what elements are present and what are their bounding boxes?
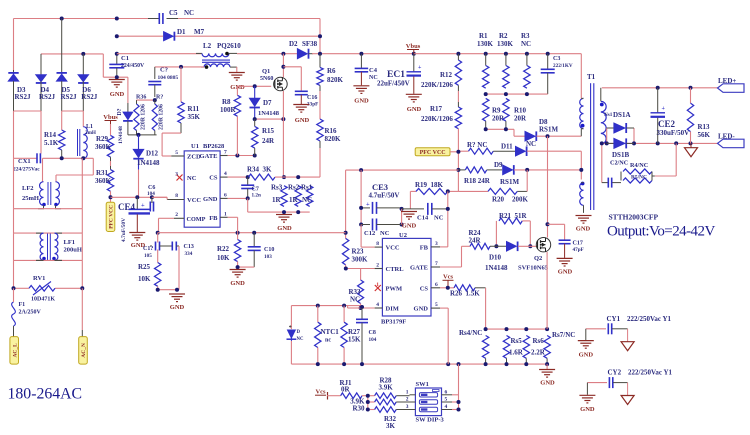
node dot R2 top xyxy=(504,52,508,56)
wire bridge AC pair rail xyxy=(41,54,103,77)
svg-text:Ns1: Ns1 xyxy=(604,112,613,118)
svg-text:Rs7/NC: Rs7/NC xyxy=(552,331,575,339)
wire flag to vert xyxy=(450,151,458,153)
svg-text:4.7uF/50V: 4.7uF/50V xyxy=(121,218,127,242)
resistor R7 NC xyxy=(458,141,493,154)
node dot rail Rs7 xyxy=(545,362,549,366)
node dot R14 bottom xyxy=(60,156,64,160)
wire SW common xyxy=(452,364,459,409)
U1 pin GND xyxy=(203,193,228,204)
svg-text:D12: D12 xyxy=(146,150,159,158)
earth CY2 xyxy=(621,396,634,405)
U1 pin ZCD xyxy=(171,150,201,161)
wire D9 out xyxy=(514,169,581,171)
svg-text:222/250Vac Y1: 222/250Vac Y1 xyxy=(627,315,672,323)
svg-text:+: + xyxy=(366,201,370,208)
svg-text:4: 4 xyxy=(445,404,448,410)
wire D8 to T1 xyxy=(537,135,582,137)
wire R6-R16 xyxy=(319,85,321,119)
T1 aux winding xyxy=(580,182,585,213)
diode D3 xyxy=(8,70,31,111)
diode D6 xyxy=(78,54,98,111)
wire gnd rail under C1 xyxy=(103,76,128,78)
node dot D8 out xyxy=(546,134,550,138)
wire Q1 drain xyxy=(282,54,284,77)
wire Q1 source xyxy=(282,91,284,177)
svg-text:+: + xyxy=(418,65,422,71)
wire D12 to VCC rail xyxy=(137,170,138,198)
wire main bus C1 to L2 xyxy=(117,53,201,55)
svg-text:R?: R? xyxy=(156,95,163,101)
capacitor C7 xyxy=(241,177,261,198)
capacitor C6 xyxy=(147,185,155,212)
resistor R3 xyxy=(521,32,531,88)
svg-text:GND: GND xyxy=(295,117,310,124)
diode D9 xyxy=(494,161,519,186)
wire LF1 top row xyxy=(14,232,83,234)
svg-text:360K: 360K xyxy=(95,177,112,185)
svg-text:104: 104 xyxy=(369,337,377,343)
node dot R1 top xyxy=(484,52,488,56)
svg-text:D1: D1 xyxy=(177,28,186,36)
svg-text:D11: D11 xyxy=(501,143,513,151)
resistor R13 xyxy=(687,88,710,144)
svg-text:M7: M7 xyxy=(194,28,205,36)
wire Rs top rail xyxy=(486,328,547,330)
resistor Rs6 xyxy=(523,336,546,359)
diode D10 xyxy=(485,242,518,273)
node dot rail U2gnd xyxy=(446,362,450,366)
resistor Rs2 xyxy=(288,184,301,207)
wire R31 bottom xyxy=(110,191,112,202)
resistor R24 xyxy=(469,229,491,249)
diode D1 xyxy=(164,28,205,41)
wire sec top xyxy=(600,88,602,102)
wire zener col xyxy=(290,306,292,330)
svg-text:CY2: CY2 xyxy=(608,369,622,377)
wire C16 top xyxy=(283,67,301,92)
U2 pin CTRL xyxy=(375,263,405,274)
svg-text:47pF: 47pF xyxy=(573,247,584,253)
wire Q2 drain xyxy=(547,136,549,237)
wire R123 bottom rail xyxy=(486,93,548,95)
svg-text:GND: GND xyxy=(558,269,573,276)
svg-text:PFC VCC: PFC VCC xyxy=(109,205,115,229)
svg-text:F1: F1 xyxy=(19,302,26,308)
svg-text:PFC VCC: PFC VCC xyxy=(420,150,446,156)
svg-text:NC: NC xyxy=(526,140,536,148)
wire to Dq column xyxy=(127,77,129,103)
node dot R3 bottom xyxy=(525,92,529,96)
T1 primary winding xyxy=(580,98,585,136)
svg-text:R14: R14 xyxy=(44,131,57,139)
resistor R22 xyxy=(217,233,241,262)
U1 pin GATE xyxy=(200,150,228,161)
svg-text:330uF/50V: 330uF/50V xyxy=(657,129,690,137)
node dot rail Rs6 xyxy=(524,362,528,366)
svg-text:RS1M: RS1M xyxy=(539,126,558,134)
svg-text:COMP: COMP xyxy=(187,216,206,223)
resistor R16 xyxy=(317,119,341,177)
svg-text:1: 1 xyxy=(376,282,379,288)
svg-text:1.6R: 1.6R xyxy=(509,349,524,357)
svg-text:10D471K: 10D471K xyxy=(31,297,55,303)
fuse F1 xyxy=(12,288,42,336)
wire aux top xyxy=(580,151,582,179)
node dot R13 bottom xyxy=(689,141,693,145)
node dot source tap xyxy=(281,117,285,121)
node dot R8 bottom xyxy=(235,154,256,158)
svg-text:Output:Vo=24-42V: Output:Vo=24-42V xyxy=(607,224,715,240)
svg-text:300K: 300K xyxy=(352,256,369,264)
node dot Rs2 top xyxy=(296,175,300,179)
wire R24 D10 xyxy=(490,245,507,247)
transformer L2 core xyxy=(202,60,230,62)
node dot ladder2 xyxy=(366,400,370,404)
node dot rail Rs5 xyxy=(505,362,509,366)
wire R36 top rail xyxy=(137,99,155,101)
transformer T1 core xyxy=(587,73,596,210)
node dot ladder3 xyxy=(366,408,370,412)
wire CX1 row xyxy=(14,157,94,159)
svg-text:10K: 10K xyxy=(138,275,151,283)
node dot D1 row left xyxy=(115,34,119,38)
wire CTRL row xyxy=(346,265,375,269)
resistor R1 xyxy=(477,32,494,88)
capacitor CX1 xyxy=(13,153,40,172)
resistor R26 xyxy=(450,285,486,298)
wire L2 sec to C2 xyxy=(155,66,204,68)
svg-text:C8: C8 xyxy=(369,330,376,336)
svg-text:DS1A: DS1A xyxy=(613,111,631,119)
ground T1 aux xyxy=(576,216,592,233)
U1 pin NC xyxy=(175,172,196,183)
svg-text:C2/NC: C2/NC xyxy=(610,160,628,167)
svg-text:R2: R2 xyxy=(499,32,508,40)
node dot sec bottom xyxy=(600,141,604,145)
svg-text:R23: R23 xyxy=(352,248,365,256)
svg-text:GND: GND xyxy=(540,380,555,387)
svg-text:CE4: CE4 xyxy=(118,202,136,212)
wire CE3 col xyxy=(360,170,362,224)
node dot snubber top xyxy=(674,141,678,145)
svg-text:R15: R15 xyxy=(262,127,275,135)
node dot C13 bottom xyxy=(175,288,179,292)
port LED- xyxy=(718,133,745,148)
svg-text:D7: D7 xyxy=(263,99,272,107)
node dot R12 top xyxy=(456,52,460,56)
svg-text:NC: NC xyxy=(521,40,531,48)
U1 pin CS xyxy=(209,171,228,182)
capacitor CY1 xyxy=(586,315,672,342)
svg-text:200K: 200K xyxy=(512,196,529,204)
wire FB row xyxy=(440,246,448,248)
node dot rail R27 xyxy=(342,362,346,366)
svg-text:Vbus: Vbus xyxy=(406,43,421,50)
svg-text:1: 1 xyxy=(406,390,409,396)
svg-text:2: 2 xyxy=(406,397,409,403)
svg-text:C5: C5 xyxy=(169,9,178,17)
resistor R9 xyxy=(483,98,506,122)
svg-text:C1: C1 xyxy=(121,55,129,62)
wire right col down xyxy=(81,209,83,233)
svg-text:220R 1206: 220R 1206 xyxy=(159,104,165,130)
switch SW1 xyxy=(406,381,452,424)
svg-text:SW1: SW1 xyxy=(416,381,429,388)
svg-text:25mH: 25mH xyxy=(22,195,39,202)
svg-text:105: 105 xyxy=(144,253,152,259)
net flag PFC VCC vert xyxy=(106,202,115,231)
wire U1 gnd row xyxy=(228,197,248,199)
resistor R30 xyxy=(350,398,409,413)
svg-text:RS2J: RS2J xyxy=(81,93,97,101)
svg-text:5: 5 xyxy=(435,302,438,308)
wire CS row xyxy=(228,176,249,178)
svg-text:220R 1206: 220R 1206 xyxy=(141,104,147,130)
node dot C6 top xyxy=(150,195,154,199)
ground under C1 xyxy=(109,80,125,99)
svg-text:360K: 360K xyxy=(95,143,112,151)
diode D5 xyxy=(57,19,77,112)
svg-text:SF38: SF38 xyxy=(302,40,318,48)
capacitor CE3 xyxy=(361,182,402,214)
capacitor C8 xyxy=(356,308,377,364)
node dot L1 bottom xyxy=(81,156,85,160)
svg-text:+: + xyxy=(662,106,666,112)
resistor R32 xyxy=(375,407,410,430)
svg-text:DS1B: DS1B xyxy=(612,151,629,159)
wire FB U1 route xyxy=(228,217,238,232)
svg-text:PQ2610: PQ2610 xyxy=(217,42,241,50)
svg-text:Rs2: Rs2 xyxy=(288,184,300,192)
node dot D5 top rail xyxy=(60,17,64,21)
svg-text:1N4148: 1N4148 xyxy=(118,126,124,144)
transformer LF1 xyxy=(40,233,82,260)
earth CY1 xyxy=(621,342,634,351)
node dot C4 top xyxy=(359,52,363,56)
svg-text:CS: CS xyxy=(209,175,218,182)
capacitor C17 xyxy=(559,240,584,258)
ground under L2 xyxy=(229,73,245,92)
wire C17 branch xyxy=(548,224,565,240)
svg-text:GND: GND xyxy=(110,91,125,98)
node dot C10 top xyxy=(252,231,256,235)
capacitor C10 xyxy=(248,233,275,267)
node dot C7 top xyxy=(246,175,250,179)
svg-text:RV1: RV1 xyxy=(33,275,45,282)
earth triangle R13 xyxy=(685,143,698,156)
node dot D12 top xyxy=(137,133,141,137)
node dot rail C8 xyxy=(360,362,364,366)
node dot drop D1 row xyxy=(318,34,322,38)
node dot C8 top xyxy=(360,305,364,309)
svg-text:R18 24R: R18 24R xyxy=(464,177,491,185)
wire D5 column to R14 xyxy=(61,111,63,130)
resistor R23 xyxy=(342,238,368,264)
svg-text:Rs5: Rs5 xyxy=(511,337,523,345)
node dot R2 bottom xyxy=(504,92,508,96)
node dot Rs5 top xyxy=(505,327,509,331)
svg-text:C1?: C1? xyxy=(143,246,153,252)
svg-text:R13: R13 xyxy=(698,123,711,131)
svg-text:RS1M: RS1M xyxy=(500,178,519,186)
svg-text:R36: R36 xyxy=(136,95,146,101)
wire top rows drop xyxy=(319,19,321,54)
capacitor C1 xyxy=(109,54,145,77)
node dot C1 column top rail xyxy=(115,17,119,21)
node dot R22 bottom xyxy=(236,265,240,269)
node dot Rs3 bottom xyxy=(282,210,286,214)
svg-text:224/450V: 224/450V xyxy=(121,63,145,69)
svg-text:nc: nc xyxy=(325,338,331,344)
node dot C16 tap xyxy=(281,65,285,69)
U1 pin VCC xyxy=(167,193,201,204)
svg-text:2mH: 2mH xyxy=(85,130,96,136)
port AC_L xyxy=(10,337,19,365)
op-amp U2 BP3179F box xyxy=(381,232,431,326)
wire CS row right xyxy=(275,176,320,178)
svg-text:1R: 1R xyxy=(289,196,299,204)
resistor R33 NC xyxy=(349,280,364,304)
ground under CE4 xyxy=(129,233,145,250)
diode DS1A xyxy=(607,111,634,133)
wire bus corner to T1 xyxy=(580,54,582,99)
svg-text:NC: NC xyxy=(297,337,304,342)
svg-text:3: 3 xyxy=(175,172,178,178)
capacitor C5 xyxy=(148,9,194,24)
svg-text:1N4148: 1N4148 xyxy=(137,159,160,167)
wire DS rails xyxy=(607,128,634,143)
capacitor C13 xyxy=(172,242,194,290)
wire U2 VCC wire xyxy=(361,225,375,248)
svg-text:R20: R20 xyxy=(492,196,505,204)
svg-text:D: D xyxy=(297,330,301,335)
svg-text:EC1: EC1 xyxy=(387,70,405,80)
wire bottom rail xyxy=(291,363,547,365)
svg-text:CE2: CE2 xyxy=(658,119,676,129)
text 180-264AC xyxy=(8,386,83,403)
svg-text:L2: L2 xyxy=(203,42,212,50)
svg-text:R3: R3 xyxy=(521,32,530,40)
wire D10 Q2 gate xyxy=(518,245,537,247)
svg-text:GATE: GATE xyxy=(410,265,428,272)
svg-text:GND: GND xyxy=(580,406,595,413)
svg-text:R25: R25 xyxy=(138,263,151,271)
U2 pin CS xyxy=(420,282,440,293)
svg-text:NTC1: NTC1 xyxy=(321,328,340,336)
node dot C1 top xyxy=(115,52,119,56)
wire CX right drop xyxy=(56,158,93,181)
wire bus to dividers xyxy=(414,53,582,55)
svg-text:104 0805: 104 0805 xyxy=(158,75,179,81)
resistor Rs7 xyxy=(544,331,575,358)
ground under C17 xyxy=(557,258,573,275)
wire VCC rail xyxy=(111,196,168,198)
node dot Rs2 bottom xyxy=(296,210,300,214)
wire L2 sec right to gnd xyxy=(236,67,238,72)
svg-text:PWM: PWM xyxy=(386,286,403,293)
capacitor C2 xyxy=(148,67,178,98)
U2 pin FB xyxy=(420,241,440,252)
svg-text:R12: R12 xyxy=(440,71,453,79)
resistor R34 xyxy=(247,166,275,181)
transistor Q2 xyxy=(518,238,551,272)
svg-text:D2: D2 xyxy=(289,40,298,48)
svg-text:VCC: VCC xyxy=(187,197,201,204)
node dot R11 top xyxy=(179,65,183,69)
svg-text:U2: U2 xyxy=(399,232,407,239)
svg-text:1: 1 xyxy=(224,212,227,218)
wire R22 C10 bottom xyxy=(238,262,255,268)
wire gnd row drop xyxy=(248,198,310,212)
svg-text:R6: R6 xyxy=(327,67,336,75)
wire LF2 left top xyxy=(42,158,44,181)
svg-text:0R: 0R xyxy=(341,386,351,394)
wire long comp rail xyxy=(158,232,346,234)
svg-text:8: 8 xyxy=(175,193,178,199)
U1 pin COMP xyxy=(174,212,206,223)
wire R11 to ZCD xyxy=(162,123,181,156)
svg-text:GND: GND xyxy=(402,223,417,230)
node dot CE4 top xyxy=(135,195,139,199)
wire LF1 bottom row xyxy=(14,233,83,260)
text Output xyxy=(607,224,715,240)
node dot R25 bottom xyxy=(156,288,160,292)
svg-text:CE3: CE3 xyxy=(372,182,388,192)
transistor Q1 xyxy=(260,68,287,91)
svg-text:R21 51R: R21 51R xyxy=(499,212,528,220)
diode D8 xyxy=(525,118,558,141)
svg-text:224/275Vac: 224/275Vac xyxy=(13,167,40,173)
resistor R18 xyxy=(458,167,502,185)
node dot Vbus xyxy=(412,52,416,56)
capacitor C11 xyxy=(143,242,172,260)
capacitor EC1 xyxy=(377,54,422,94)
svg-text:2: 2 xyxy=(376,263,379,269)
wire FB vert xyxy=(447,191,449,247)
wire CS U2 row xyxy=(440,287,454,289)
svg-text:C10: C10 xyxy=(264,247,274,253)
node dot R18 node xyxy=(456,168,460,172)
svg-text:NC: NC xyxy=(380,230,390,237)
node dot D6 top xyxy=(81,52,85,56)
svg-text:4: 4 xyxy=(224,171,227,177)
wire gnd rail to C14 xyxy=(402,208,424,210)
node dot Q1 drain junction xyxy=(281,52,285,56)
wire AC N col xyxy=(81,288,83,336)
resistor Rs5 xyxy=(503,336,523,359)
svg-text:10K: 10K xyxy=(217,254,230,262)
node dot C3 top xyxy=(546,52,550,56)
resistor R15 xyxy=(252,119,276,155)
node dot COMP node xyxy=(156,231,348,235)
wire VCC feed row xyxy=(346,169,459,171)
wire R19 left drop xyxy=(409,191,411,209)
diode D12 xyxy=(133,135,160,170)
svg-text:5: 5 xyxy=(445,397,448,403)
svg-text:RS2J: RS2J xyxy=(39,93,55,101)
power label Vcs2 xyxy=(315,389,328,400)
svg-text:R? NC: R? NC xyxy=(467,141,487,149)
svg-text:15K: 15K xyxy=(348,336,361,344)
svg-text:Q1: Q1 xyxy=(262,68,270,75)
node dot C14 right xyxy=(446,207,450,211)
node dot ladder1 xyxy=(366,394,370,398)
svg-text:C13: C13 xyxy=(184,244,194,250)
resistor Rs1 xyxy=(301,184,313,207)
svg-text:R16: R16 xyxy=(325,127,338,135)
svg-text:BP2628: BP2628 xyxy=(203,143,225,150)
